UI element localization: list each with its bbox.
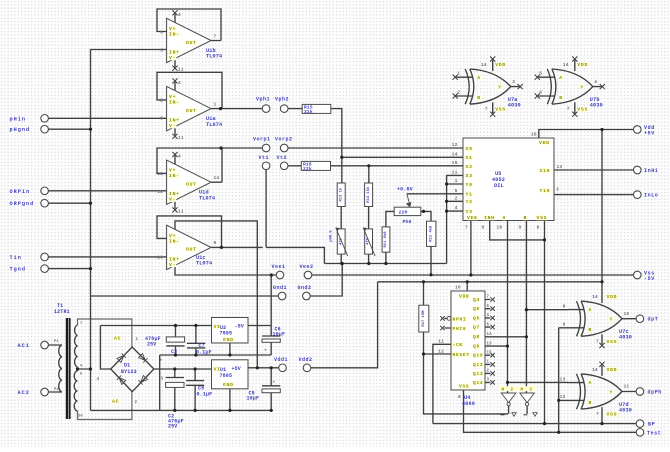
svg-text:B: B: [589, 400, 593, 406]
svg-text:10µF: 10µF: [273, 331, 286, 337]
svg-text:Vorp1: Vorp1: [253, 137, 271, 143]
svg-text:Vt2: Vt2: [277, 155, 288, 161]
svg-text:13: 13: [557, 164, 563, 170]
svg-text:ORPin: ORPin: [10, 189, 31, 195]
svg-text:N: N: [502, 388, 505, 392]
svg-text:InHi: InHi: [644, 168, 658, 174]
svg-text:Q13: Q13: [473, 371, 483, 377]
svg-text:N: N: [521, 388, 524, 392]
svg-text:VSS: VSS: [495, 107, 506, 113]
svg-text:9: 9: [519, 225, 522, 231]
svg-text:R17 10M: R17 10M: [422, 310, 426, 327]
svg-text:25V: 25V: [147, 342, 156, 348]
svg-text:15: 15: [487, 351, 493, 355]
svg-text:IN-: IN-: [169, 100, 180, 106]
svg-text:25V: 25V: [168, 424, 177, 430]
svg-text:11: 11: [452, 169, 458, 175]
svg-text:V+: V+: [169, 94, 176, 100]
svg-text:1: 1: [455, 178, 458, 184]
svg-text:Vdd1: Vdd1: [274, 357, 288, 363]
svg-text:TL074: TL074: [196, 261, 212, 267]
svg-text:Q7: Q7: [473, 325, 480, 331]
svg-text:2: 2: [530, 388, 533, 392]
svg-text:X10: X10: [540, 168, 551, 174]
svg-text:IN-: IN-: [169, 173, 180, 179]
svg-text:3: 3: [160, 116, 163, 122]
svg-text:C7: C7: [199, 343, 205, 349]
svg-text:PHI0: PHI0: [453, 326, 467, 332]
svg-text:5: 5: [455, 188, 458, 194]
svg-text:11: 11: [624, 384, 630, 390]
svg-text:Q12: Q12: [473, 362, 483, 368]
svg-text:10: 10: [624, 311, 630, 317]
svg-text:OUT: OUT: [186, 182, 197, 188]
svg-text:14: 14: [452, 151, 458, 157]
svg-text:4: 4: [594, 79, 597, 85]
svg-text:AC: AC: [114, 336, 121, 342]
svg-text:VSS: VSS: [459, 383, 469, 389]
svg-text:10µF: 10µF: [247, 396, 260, 402]
svg-text:B: B: [589, 327, 593, 333]
svg-text:dpPh: dpPh: [648, 390, 662, 396]
svg-text:4060: 4060: [462, 401, 475, 407]
svg-text:GND: GND: [223, 337, 234, 343]
svg-text:4: 4: [455, 205, 458, 211]
svg-text:12: 12: [452, 142, 458, 148]
svg-text:1: 1: [214, 101, 217, 107]
svg-text:TL074: TL074: [206, 122, 222, 128]
svg-text:Q8: Q8: [473, 334, 480, 340]
svg-text:3: 3: [556, 187, 559, 193]
svg-text:+5V: +5V: [232, 366, 241, 372]
svg-text:11: 11: [178, 67, 184, 73]
svg-text:V-: V-: [169, 55, 176, 61]
svg-text:X1: X1: [466, 155, 473, 161]
svg-text:V-: V-: [169, 197, 176, 203]
svg-text:14: 14: [563, 62, 569, 68]
svg-text:VDD: VDD: [607, 294, 618, 300]
svg-text:V-: V-: [169, 123, 176, 129]
svg-text:VSS: VSS: [607, 339, 618, 345]
svg-text:Y3: Y3: [466, 209, 473, 215]
svg-text:pHgnd: pHgnd: [10, 127, 31, 133]
svg-text:TL074: TL074: [206, 54, 222, 60]
svg-text:Vorp2: Vorp2: [275, 137, 293, 143]
svg-text:7905: 7905: [220, 331, 233, 337]
svg-text:Y0: Y0: [466, 182, 473, 188]
svg-text:1: 1: [487, 361, 490, 365]
svg-text:4: 4: [178, 12, 181, 18]
svg-text:Vt1: Vt1: [259, 155, 270, 161]
svg-text:R12 4k8: R12 4k8: [428, 225, 433, 242]
svg-text:13: 13: [560, 376, 566, 382]
svg-text:VEE: VEE: [467, 215, 478, 221]
svg-text:Y: Y: [498, 85, 502, 91]
svg-text:Y10: Y10: [540, 188, 551, 194]
svg-text:DIL: DIL: [494, 183, 504, 189]
svg-text:Q10: Q10: [473, 353, 483, 359]
svg-text:Gnd1: Gnd1: [273, 285, 287, 291]
svg-text:22k: 22k: [303, 166, 312, 172]
svg-text:2: 2: [511, 388, 514, 392]
svg-text:9: 9: [563, 322, 566, 328]
svg-text:4: 4: [178, 80, 181, 86]
svg-text:V+: V+: [169, 168, 176, 174]
svg-text:D1: D1: [124, 363, 130, 369]
svg-text:0.1µF: 0.1µF: [196, 350, 212, 356]
svg-text:1: 1: [136, 338, 139, 342]
svg-text:C3: C3: [171, 349, 177, 355]
svg-text:B: B: [477, 95, 481, 101]
svg-text:11: 11: [438, 339, 444, 345]
svg-text:14: 14: [481, 62, 487, 68]
svg-text:OUT: OUT: [186, 108, 197, 114]
svg-text:10: 10: [497, 225, 503, 231]
svg-text:6: 6: [160, 30, 163, 36]
svg-text:3: 3: [487, 379, 490, 383]
svg-text:P1: P1: [54, 340, 59, 344]
svg-text:12: 12: [157, 189, 163, 195]
svg-text:7: 7: [465, 225, 468, 231]
svg-text:13: 13: [157, 171, 163, 177]
svg-text:Ph6: Ph6: [403, 219, 412, 225]
svg-text:A: A: [559, 75, 563, 81]
svg-text:7: 7: [485, 106, 488, 112]
svg-text:4030: 4030: [590, 103, 603, 109]
svg-text:12: 12: [438, 348, 444, 354]
svg-text:Test: Test: [647, 431, 661, 437]
svg-text:Y: Y: [610, 390, 614, 396]
svg-text:16: 16: [455, 285, 461, 291]
svg-text:2: 2: [160, 98, 163, 104]
svg-text:Vee1: Vee1: [272, 264, 286, 270]
svg-text:Y2: Y2: [466, 199, 473, 205]
svg-text:-5V: -5V: [644, 276, 655, 282]
svg-text:Y: Y: [610, 317, 614, 323]
svg-text:11: 11: [178, 208, 184, 214]
svg-text:›CK: ›CK: [453, 342, 463, 348]
svg-text:InLo: InLo: [644, 193, 658, 199]
svg-text:4030: 4030: [619, 407, 632, 413]
svg-text:BY123: BY123: [121, 369, 137, 375]
svg-text:+: +: [264, 349, 267, 354]
svg-text:12TR1: 12TR1: [54, 309, 70, 315]
svg-text:6: 6: [539, 90, 542, 96]
svg-text:IN+: IN+: [169, 118, 180, 124]
svg-text:V+: V+: [169, 233, 176, 239]
svg-text:2: 2: [455, 195, 458, 201]
svg-text:VSS: VSS: [577, 107, 588, 113]
svg-text:4030: 4030: [619, 335, 632, 341]
svg-text:A: A: [589, 380, 593, 386]
svg-text:BP: BP: [648, 422, 655, 428]
svg-text:VDD: VDD: [459, 294, 469, 300]
svg-text:AC: AC: [112, 399, 119, 405]
svg-text:VI: VI: [214, 324, 221, 330]
svg-text:AC1: AC1: [18, 343, 30, 349]
svg-text:4: 4: [487, 314, 490, 318]
svg-text:Tin: Tin: [10, 255, 22, 261]
svg-text:3: 3: [512, 79, 515, 85]
svg-text:+0.6V: +0.6V: [397, 187, 413, 193]
svg-text:9: 9: [214, 240, 217, 246]
svg-text:10: 10: [157, 254, 163, 260]
svg-text:Tgnd: Tgnd: [10, 267, 26, 273]
svg-text:R13 1k: R13 1k: [338, 187, 343, 201]
svg-text:2: 2: [487, 370, 490, 374]
svg-text:220: 220: [399, 210, 408, 216]
svg-text:OUT: OUT: [186, 40, 197, 46]
svg-text:IN+: IN+: [169, 191, 180, 197]
svg-text:pHin: pHin: [10, 116, 26, 122]
svg-text:14: 14: [592, 367, 598, 373]
svg-text:dpT: dpT: [648, 317, 659, 323]
svg-text:IN-: IN-: [169, 238, 180, 244]
svg-text:NPHI: NPHI: [453, 316, 467, 322]
svg-text:12: 12: [560, 394, 566, 400]
svg-text:0.1µF: 0.1µF: [197, 392, 213, 398]
svg-text:VDD: VDD: [539, 140, 550, 146]
svg-text:A: A: [589, 307, 593, 313]
svg-text:AC2: AC2: [18, 390, 30, 396]
svg-text:Gnd2: Gnd2: [298, 285, 312, 291]
svg-text:TL074: TL074: [199, 195, 215, 201]
svg-text:RESET: RESET: [453, 352, 470, 358]
svg-text:Vph1: Vph1: [256, 97, 270, 103]
svg-text:16: 16: [531, 132, 537, 138]
svg-text:Q4: Q4: [473, 297, 480, 303]
svg-text:-5V: -5V: [235, 324, 244, 330]
svg-text:VDD: VDD: [495, 62, 506, 68]
svg-text:7: 7: [214, 33, 217, 39]
svg-text:X0: X0: [466, 146, 473, 152]
svg-text:R14 15k: R14 15k: [366, 186, 371, 203]
svg-text:VI: VI: [214, 367, 221, 373]
svg-text:4030: 4030: [508, 103, 521, 109]
svg-text:Y1: Y1: [466, 192, 473, 198]
svg-text:Y: Y: [580, 85, 584, 91]
svg-text:14: 14: [592, 294, 598, 300]
svg-text:7: 7: [596, 338, 599, 344]
svg-text:R11 6k8: R11 6k8: [383, 231, 388, 248]
svg-text:1: 1: [457, 71, 460, 77]
svg-text:GND: GND: [223, 382, 234, 388]
svg-text:µH8.5: µH8.5: [330, 230, 334, 242]
svg-text:V-: V-: [169, 262, 176, 268]
svg-text:6: 6: [487, 323, 490, 327]
svg-text:5: 5: [539, 71, 542, 77]
svg-text:7: 7: [567, 106, 570, 112]
svg-text:14: 14: [487, 333, 493, 337]
svg-text:Q14: Q14: [473, 380, 483, 386]
svg-text:OUT: OUT: [186, 247, 197, 253]
svg-text:5: 5: [487, 305, 490, 309]
svg-text:Q6: Q6: [473, 315, 480, 321]
svg-text:S0: S0: [78, 415, 83, 419]
svg-text:8: 8: [537, 225, 540, 231]
svg-text:A: A: [477, 75, 481, 81]
svg-text:2: 2: [135, 401, 138, 405]
svg-text:X3: X3: [466, 173, 473, 179]
svg-text:+5V: +5V: [644, 131, 655, 137]
svg-text:8: 8: [458, 394, 461, 400]
svg-text:X2: X2: [466, 164, 473, 170]
svg-text:2: 2: [457, 90, 460, 96]
svg-text:31k: 31k: [304, 109, 313, 115]
svg-text:B: B: [524, 215, 528, 221]
svg-text:7: 7: [487, 296, 490, 300]
svg-text:P2: P2: [54, 388, 59, 392]
svg-text:B: B: [559, 95, 563, 101]
svg-text:Vph2: Vph2: [275, 97, 289, 103]
svg-text:V+: V+: [169, 26, 176, 32]
svg-text:+: +: [273, 381, 276, 386]
svg-text:VDD: VDD: [607, 367, 618, 373]
svg-text:5: 5: [160, 48, 163, 54]
svg-text:13: 13: [487, 342, 493, 346]
svg-text:VSS: VSS: [537, 215, 548, 221]
svg-text:3: 3: [161, 378, 164, 382]
svg-text:VDD: VDD: [577, 62, 588, 68]
svg-text:+: +: [160, 359, 163, 364]
svg-text:Vdd2: Vdd2: [299, 357, 313, 363]
svg-text:6: 6: [482, 225, 485, 231]
svg-text:Vee2: Vee2: [300, 264, 314, 270]
svg-text:8: 8: [563, 303, 566, 309]
svg-text:7805: 7805: [220, 373, 233, 379]
svg-text:IN+: IN+: [169, 256, 180, 262]
svg-text:Q9: Q9: [473, 344, 480, 350]
svg-text:INH: INH: [484, 215, 495, 221]
svg-text:Q5: Q5: [473, 306, 480, 312]
svg-text:4: 4: [178, 154, 181, 160]
svg-text:A: A: [503, 215, 507, 221]
svg-text:4: 4: [97, 378, 100, 382]
svg-text:15: 15: [452, 160, 458, 166]
svg-text:ORPgnd: ORPgnd: [10, 201, 35, 207]
svg-text:IN-: IN-: [169, 32, 180, 38]
svg-text:VSS: VSS: [607, 412, 618, 418]
svg-text:IN+: IN+: [169, 50, 180, 56]
svg-text:7: 7: [596, 411, 599, 417]
svg-text:11: 11: [178, 135, 184, 141]
svg-text:14: 14: [214, 175, 220, 181]
